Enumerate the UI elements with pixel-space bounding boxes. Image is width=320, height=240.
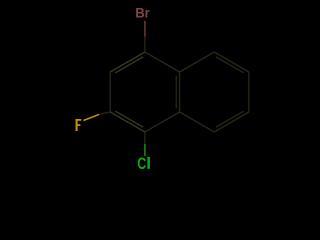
svg-text:Br: Br <box>135 5 150 21</box>
svg-text:C: C <box>137 155 146 173</box>
